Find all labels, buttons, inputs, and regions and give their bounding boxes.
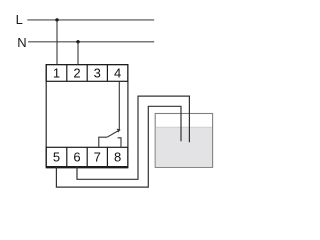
terminal block bottom edge thick <box>46 167 129 169</box>
switch S1 pole from terminal 7 <box>99 137 107 147</box>
svg-text:5: 5 <box>53 150 60 165</box>
node junction dot on L <box>55 18 58 21</box>
svg-text:8: 8 <box>114 150 121 165</box>
wire N to terminal 2 <box>77 42 79 65</box>
tank water surface line <box>156 126 212 128</box>
wire L phase line <box>27 19 154 21</box>
wire terminal 6 to probe E2 <box>77 96 189 179</box>
wire L to terminal 1 <box>56 20 58 65</box>
svg-text:3: 3 <box>94 66 101 81</box>
svg-text:L: L <box>16 12 23 27</box>
wire terminal 4 internal lead <box>118 81 120 130</box>
svg-text:2: 2 <box>73 66 80 81</box>
wire terminal 5 to probe E1 <box>56 106 181 187</box>
node junction dot on N <box>76 40 79 43</box>
tank vessel <box>155 114 212 168</box>
svg-text:1: 1 <box>53 66 60 81</box>
svg-text:N: N <box>17 35 26 50</box>
tank water fill <box>156 127 212 167</box>
svg-text:6: 6 <box>73 150 80 165</box>
terminal block bottom row <box>46 147 128 166</box>
switch contact from terminal 8 <box>118 138 121 148</box>
terminal block top row <box>46 65 128 82</box>
wire N neutral line <box>28 41 154 43</box>
switch S1 blade with arrowhead <box>107 129 120 137</box>
svg-text:4: 4 <box>114 66 121 81</box>
svg-text:7: 7 <box>94 150 101 165</box>
relay module U1 body <box>46 65 128 167</box>
